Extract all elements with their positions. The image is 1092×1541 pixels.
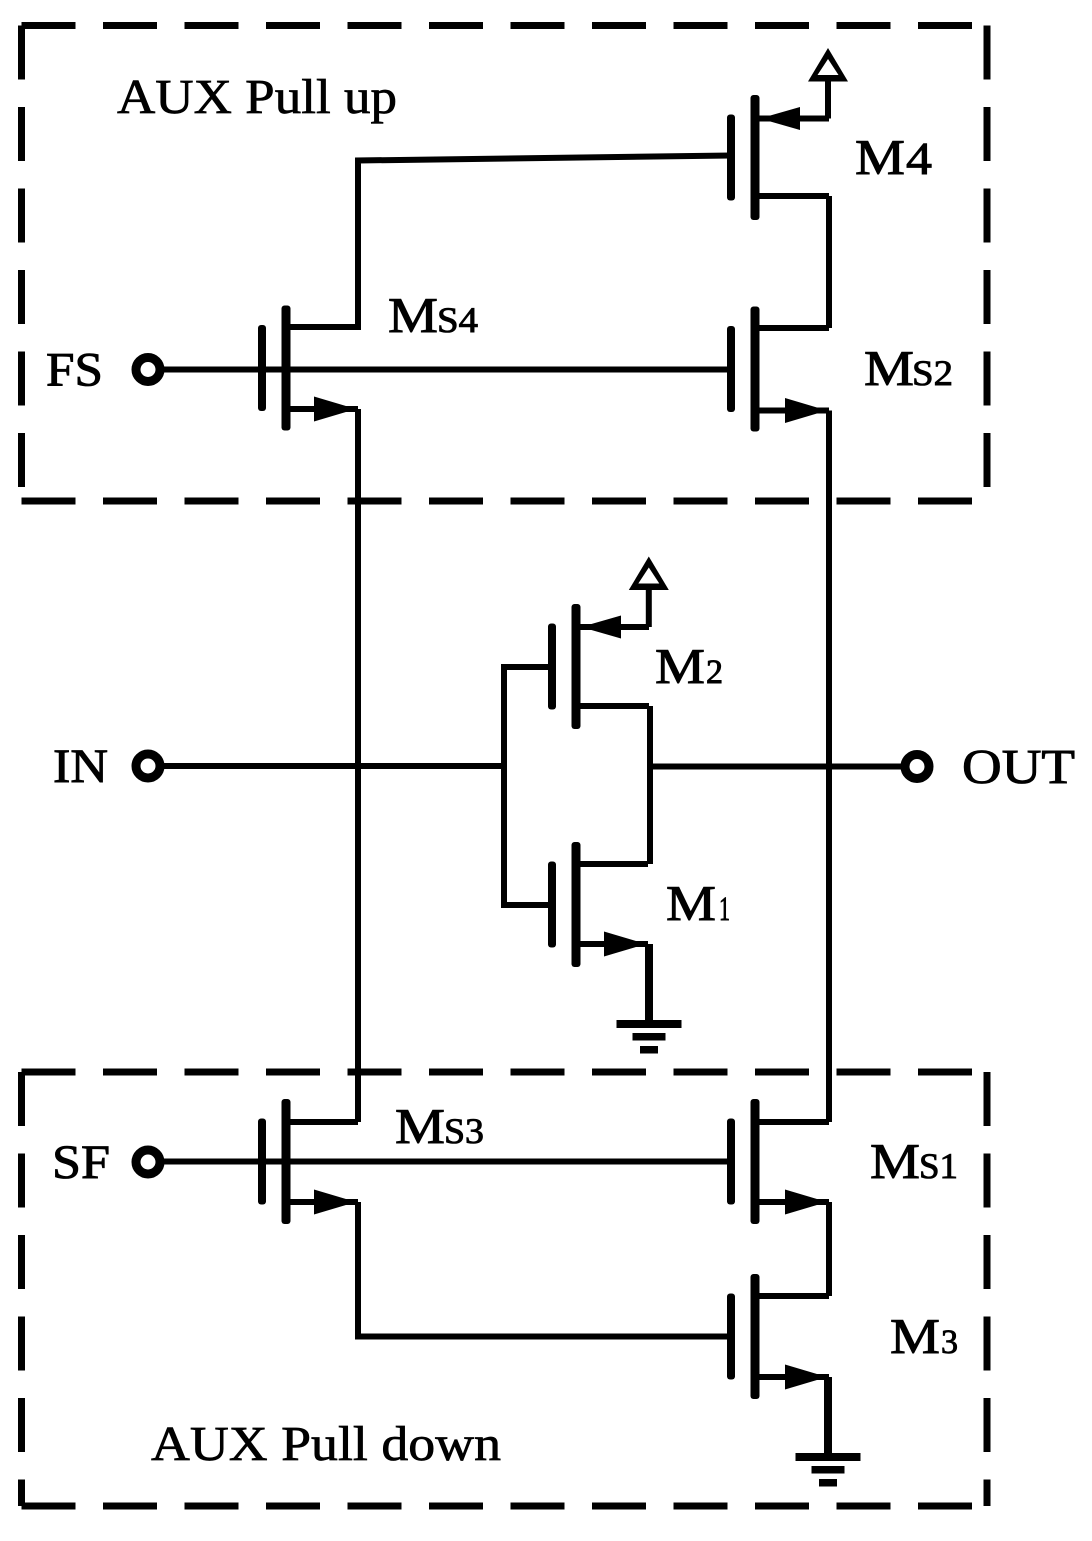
transistor M3 [727,1274,829,1399]
svg-text:M: M [870,1133,920,1189]
dashed box: AUX Pull down [22,1072,988,1506]
svg-text:S3: S3 [444,1111,484,1151]
label FS [46,344,103,397]
wire: MS1 source down to M3 drain [826,1202,832,1296]
wire: M4 drain down to MS2 drain [826,196,832,328]
power symbol VDD (M4) [808,48,848,119]
svg-text:S1: S1 [919,1146,958,1186]
transistor MS1 [727,1099,829,1224]
ground (M3) [796,1377,861,1487]
wire: gate tie vertical (M2 gate to M1 gate) [504,667,552,905]
svg-text:AUX Pull up: AUX Pull up [117,69,397,124]
label MS1 [870,1133,958,1189]
svg-text:2: 2 [706,654,723,691]
dashed box: AUX Pull up [22,26,988,502]
svg-text:M: M [855,129,905,185]
label M3 [890,1308,958,1364]
svg-text:3: 3 [941,1324,958,1361]
svg-text:SF: SF [52,1136,110,1189]
svg-text:IN: IN [53,740,108,793]
label: AUX Pull up [117,69,397,124]
wire: MS4 source down to MS3 drain [355,409,361,1122]
label M2 [655,638,723,694]
svg-text:1: 1 [719,891,730,928]
transistor MS4 [258,306,358,431]
label: AUX Pull down [151,1416,501,1471]
label M4 [855,129,932,185]
terminal FS [136,358,160,382]
wire: OUT [650,764,903,770]
transistor MS2 [727,307,829,432]
label MS4 [388,287,478,343]
wire: SF to gates of MS3 and MS1 [160,1159,731,1165]
power symbol VDD (M2) [629,557,669,628]
svg-text:4: 4 [906,133,932,184]
ground (M1) [617,944,682,1054]
svg-text:OUT: OUT [962,739,1075,794]
terminal OUT [905,755,929,779]
wire: MS2 source down to MS1 drain [826,411,832,1123]
wire: FS to gates of MS4 and MS2 [160,367,731,373]
svg-text:FS: FS [46,344,103,397]
wire: IN to inverter gates [160,763,504,769]
svg-text:M: M [666,875,716,931]
svg-text:M: M [864,340,914,396]
terminal SF [136,1150,160,1174]
label SF [52,1136,110,1189]
svg-text:S4: S4 [437,300,478,340]
svg-text:AUX Pull down: AUX Pull down [151,1416,501,1471]
transistor M2 [548,604,649,729]
label M1 [666,875,730,931]
transistor M4 [727,95,829,220]
svg-text:M: M [395,1098,445,1154]
wire: MS4 drain up to M4 gate [286,156,731,328]
label OUT [962,739,1075,794]
terminal IN [136,754,160,778]
wire: inverter output vertical (M2 drain to M1 drain) [647,706,653,864]
transistor MS3 [258,1099,358,1224]
svg-text:M: M [655,638,705,694]
wire: MS3 source down and right to M3 gate [358,1202,731,1337]
label IN [53,740,108,793]
transistor M1 [548,842,648,967]
label MS2 [864,340,953,396]
label MS3 [395,1098,484,1154]
svg-text:M: M [388,287,438,343]
svg-text:M: M [890,1308,940,1364]
svg-text:S2: S2 [912,353,953,393]
